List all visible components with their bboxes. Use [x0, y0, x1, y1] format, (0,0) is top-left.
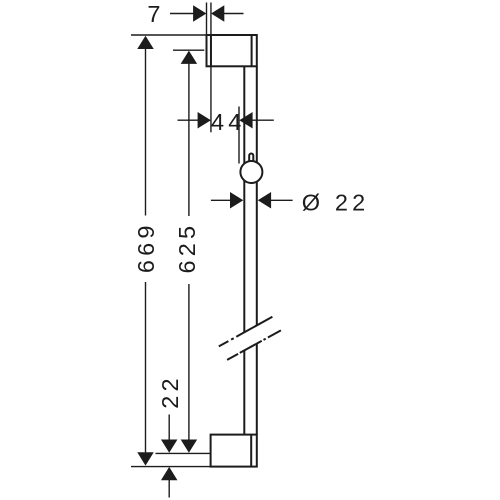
svg-text:44: 44	[211, 109, 246, 135]
svg-text:7: 7	[147, 1, 160, 27]
svg-text:22: 22	[157, 374, 183, 409]
svg-text:625: 625	[174, 222, 200, 274]
svg-text:Ø 22: Ø 22	[302, 190, 370, 216]
svg-text:669: 669	[133, 221, 159, 273]
